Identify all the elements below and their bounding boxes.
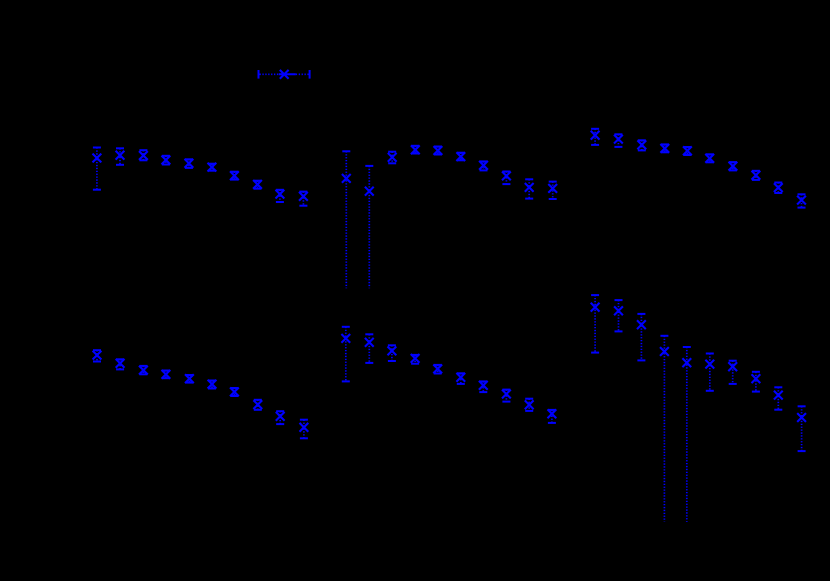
bottom-right point 5 (682, 347, 691, 522)
bottom-middle point 7 (479, 381, 488, 392)
bottom-left point 7 (230, 388, 239, 397)
bottom-left point 6 (208, 380, 217, 389)
top-right point 3 (637, 140, 646, 150)
top-right point 9 (774, 183, 783, 194)
bottom-middle point 1 (341, 327, 350, 382)
bottom-middle point 4 (411, 354, 420, 364)
top-left point 6 (208, 163, 217, 172)
top-middle point 10 (548, 182, 557, 199)
legend errorbar sample (259, 70, 310, 79)
bottom-middle point 6 (456, 373, 465, 384)
top-middle point 3 (388, 152, 397, 164)
top-left point 10 (299, 192, 308, 206)
bottom-left point 10 (300, 420, 309, 439)
top-middle point 2 (365, 166, 374, 288)
bottom-right point 10 (797, 406, 806, 451)
top-middle point 8 (502, 172, 511, 185)
top-middle point 9 (525, 179, 534, 198)
bottom-middle point 5 (433, 365, 442, 374)
top-right point 6 (705, 154, 714, 163)
top-right point 7 (729, 162, 738, 171)
bottom-right point 4 (660, 336, 669, 522)
bottom-middle point 3 (388, 345, 397, 361)
top-right point 10 (797, 194, 806, 207)
top-middle point 4 (411, 145, 420, 154)
bottom-left point 5 (185, 374, 194, 383)
bottom-middle point 2 (365, 334, 374, 363)
top-left point 3 (139, 150, 148, 160)
bottom-right point 8 (752, 372, 761, 392)
top-left point 4 (162, 156, 171, 165)
top-middle point 1 (342, 151, 351, 288)
bottom-middle point 9 (525, 399, 534, 411)
bottom-right point 2 (614, 300, 623, 331)
bottom-right point 9 (774, 387, 783, 409)
bottom-left point 2 (116, 359, 125, 370)
bottom-left point 4 (162, 370, 171, 379)
bottom-right point 1 (591, 295, 600, 353)
top-middle point 7 (479, 161, 488, 171)
bottom-middle point 10 (548, 409, 557, 423)
top-left point 9 (276, 190, 285, 202)
bottom-left point 1 (93, 350, 102, 361)
top-right point 2 (614, 134, 623, 147)
top-left point 1 (93, 148, 102, 190)
top-right point 8 (752, 171, 761, 180)
bottom-left point 8 (253, 400, 262, 410)
bottom-right point 6 (705, 354, 714, 391)
bottom-left point 3 (139, 366, 148, 375)
top-left point 5 (185, 159, 194, 168)
top-middle point 6 (456, 152, 465, 161)
top-left point 7 (230, 171, 239, 180)
top-left point 8 (253, 180, 262, 189)
top-right point 4 (660, 144, 669, 153)
top-middle point 5 (434, 146, 443, 155)
bottom-right point 3 (637, 314, 646, 361)
bottom-left point 9 (276, 411, 285, 424)
top-right point 5 (683, 146, 692, 155)
bottom-middle point 8 (502, 390, 511, 402)
top-right point 1 (591, 129, 600, 145)
bottom-right point 7 (728, 361, 737, 384)
top-left point 2 (116, 148, 125, 165)
